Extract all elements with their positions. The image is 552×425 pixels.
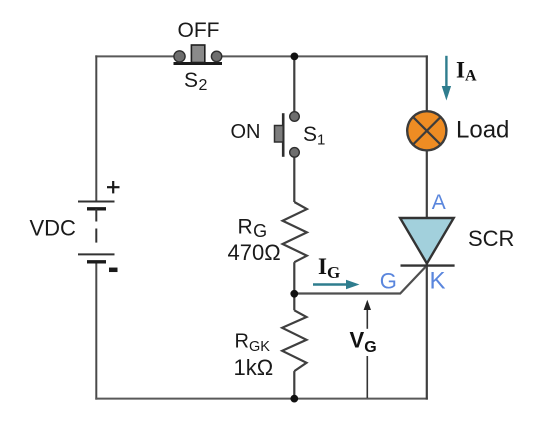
switch S2 button	[191, 45, 204, 63]
svg-text:G: G	[380, 269, 397, 294]
node junction gate	[290, 290, 298, 298]
wire right rail: lamp to SCR anode	[426, 151, 428, 219]
svg-text:ON: ON	[231, 121, 261, 143]
arrow VG (black, up) upper segment with head	[366, 307, 368, 329]
wire top horizontal left (from left rail to S2 left contact)	[95, 55, 174, 57]
SCR cathode bar	[401, 264, 455, 266]
switch S1 button	[275, 126, 284, 143]
svg-text:VG: VG	[350, 328, 377, 357]
SCR U1 triangle (anode top, cathode apex down)	[400, 218, 454, 264]
battery VDC cell1 short thick plate	[87, 207, 106, 210]
svg-text:Load: Load	[456, 117, 509, 144]
wire right rail: SCR cathode down to bottom corner	[426, 264, 428, 400]
wire middle branch: RGK bottom to bottom junction	[293, 371, 295, 399]
svg-text:S2: S2	[184, 69, 208, 94]
switch S1 bottom contact	[290, 148, 300, 158]
svg-text:RG: RG	[238, 216, 268, 242]
svg-text:RGK: RGK	[235, 331, 271, 356]
node junction bottom	[290, 395, 298, 403]
svg-text:OFF: OFF	[178, 19, 220, 42]
arrow VG lower segment	[366, 356, 368, 398]
switch S2 (OFF, NC pushbutton) bridge bar	[174, 62, 223, 65]
svg-text:VDC: VDC	[30, 216, 77, 241]
wire bottom horizontal (left corner to right corner)	[95, 398, 428, 400]
battery stem below cell1	[95, 209, 97, 222]
svg-text:IA: IA	[456, 58, 477, 85]
wire left rail lower (battery - plate down to bottom corner)	[95, 262, 97, 400]
arrow IA (teal, down)	[445, 56, 447, 89]
battery VDC cell2 short thick plate	[87, 260, 106, 263]
svg-text:SCR: SCR	[468, 226, 514, 251]
resistor RG 470ohm zigzag	[283, 202, 307, 262]
switch S2 left contact	[174, 51, 185, 62]
switch S1 top contact	[290, 112, 300, 122]
svg-text:A: A	[432, 191, 446, 214]
wire middle branch: S1 bottom contact down to RG top	[293, 157, 295, 203]
battery VDC cell2 long plate	[78, 253, 115, 255]
wire right rail: top corner down to lamp	[426, 55, 428, 111]
svg-text:S1: S1	[303, 123, 325, 149]
lamp cross stroke 1	[413, 117, 440, 144]
arrow IG (teal, right)	[313, 283, 348, 285]
lamp cross stroke 2	[413, 117, 440, 144]
switch S2 right contact	[211, 51, 221, 61]
svg-text:470Ω: 470Ω	[228, 240, 281, 265]
wire top horizontal right (from S2 right contact to top-right corner)	[222, 55, 428, 57]
wire middle branch: top junction down to S1 top contact	[293, 56, 295, 112]
svg-text:K: K	[430, 268, 446, 295]
svg-text:IG: IG	[318, 254, 340, 282]
label battery minus	[109, 268, 118, 273]
resistor RGK 1k zigzag	[282, 310, 306, 371]
svg-text:1kΩ: 1kΩ	[234, 355, 274, 380]
wire gate horizontal from junction to bend	[294, 266, 427, 294]
battery VDC cell1 long plate	[78, 201, 115, 203]
wire middle branch: RG bottom to gate junction	[293, 262, 295, 294]
lamp Load	[407, 111, 446, 150]
wire middle branch: gate junction down to RGK top	[293, 294, 295, 310]
battery dash between cells	[95, 229, 97, 243]
switch S1 (ON, NO pushbutton) actuator bar	[282, 113, 285, 157]
node junction top (middle branch / top wire)	[291, 53, 299, 61]
label battery plus	[107, 186, 120, 188]
wire left rail upper (top corner down to battery + plate)	[95, 55, 97, 201]
